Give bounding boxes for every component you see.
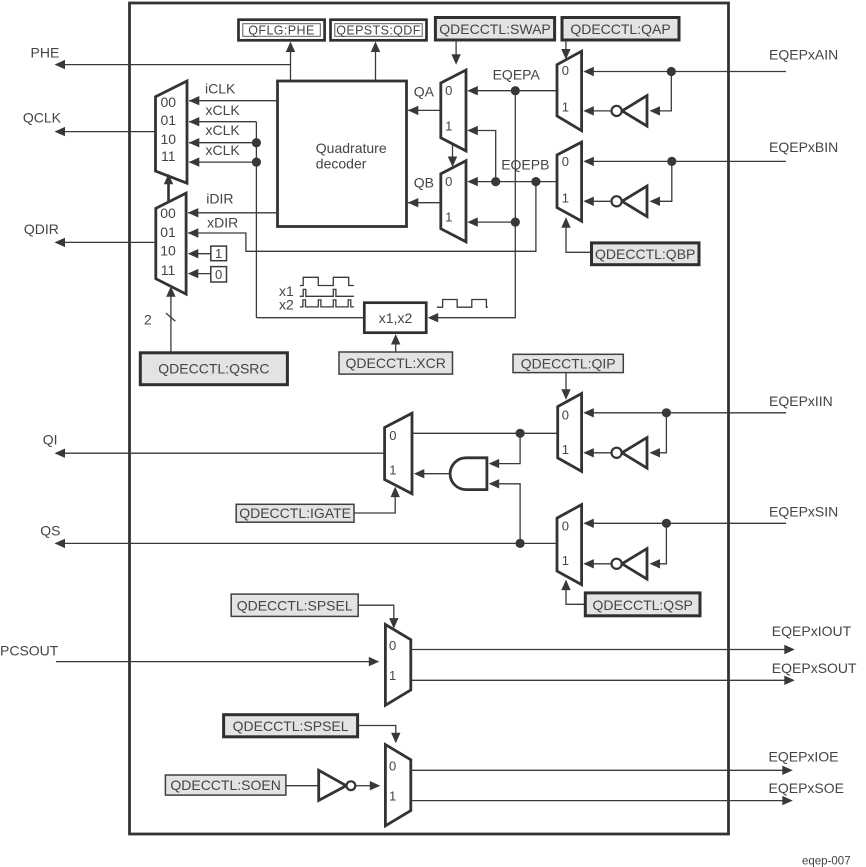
wire SWAP select QA to QB — [448, 145, 457, 167]
wire EQEPB — [467, 157, 557, 187]
wire AND input index — [489, 433, 520, 468]
wire QSRC select pass-through M2 to M1 — [164, 174, 173, 201]
junction EQEPxSIN — [662, 519, 671, 528]
svg-text:QDECCTL:QSRC: QDECCTL:QSRC — [158, 361, 269, 377]
svg-text:decoder: decoder — [316, 155, 367, 171]
wire PHE out — [55, 60, 291, 69]
inverter B — [612, 186, 648, 217]
svg-text:1: 1 — [562, 553, 569, 568]
wire EQEPxIOUT — [411, 645, 795, 654]
constant 0 box — [188, 267, 227, 283]
wire inverter S input — [650, 523, 667, 568]
svg-text:QA: QA — [414, 84, 435, 100]
svg-text:01: 01 — [161, 112, 177, 128]
register QDECCTL:XCR — [339, 352, 453, 374]
svg-text:1: 1 — [445, 210, 452, 225]
svg-text:QDECCTL:SWAP: QDECCTL:SWAP — [439, 21, 551, 37]
svg-text:x1,x2: x1,x2 — [379, 310, 413, 326]
svg-text:PHE: PHE — [31, 45, 60, 61]
junction EQEPB at QA branch — [491, 177, 500, 186]
svg-text:1: 1 — [445, 119, 452, 134]
wire IGATE select — [354, 487, 400, 513]
svg-text:0: 0 — [389, 759, 396, 774]
wire xCLK 1 — [189, 102, 257, 127]
svg-text:0: 0 — [562, 519, 569, 534]
svg-text:1: 1 — [389, 789, 396, 804]
wire AND output to QI mux input 1 — [414, 469, 450, 478]
svg-text:xCLK: xCLK — [206, 102, 241, 118]
waveform x1 pulses — [300, 289, 354, 296]
demux SOE — [385, 745, 410, 826]
wire QSRC select to M2 — [166, 286, 175, 353]
wire EQEPA into x1,x2 block — [428, 91, 516, 323]
svg-text:EQEPA: EQEPA — [493, 67, 541, 83]
svg-text:EQEPxSOUT: EQEPxSOUT — [772, 660, 857, 676]
junction EQEPxIIN — [662, 408, 671, 417]
svg-text:1: 1 — [389, 462, 396, 477]
wire EQEPA to QB mux input 1 — [467, 217, 515, 226]
svg-text:QDECCTL:QBP: QDECCTL:QBP — [595, 246, 695, 262]
svg-text:QDECCTL:SPSEL: QDECCTL:SPSEL — [233, 718, 349, 734]
register QFLG:PHE — [239, 20, 325, 41]
svg-text:2: 2 — [144, 312, 152, 328]
junction index — [516, 429, 525, 438]
wire SWAP select to QA mux — [451, 40, 460, 65]
junction EQEPxBIN — [667, 157, 676, 166]
wire xDIR — [188, 182, 536, 252]
svg-text:0: 0 — [562, 63, 569, 78]
svg-text:0: 0 — [562, 154, 569, 169]
svg-text:0: 0 — [389, 428, 396, 443]
outer boundary box — [130, 3, 729, 834]
svg-text:QDECCTL:SPSEL: QDECCTL:SPSEL — [237, 598, 353, 614]
wire PCSOUT in — [56, 657, 379, 666]
wire QDIR out — [55, 238, 156, 247]
wire QIP select — [561, 373, 570, 400]
inverter S — [612, 549, 648, 580]
svg-text:QDECCTL:IGATE: QDECCTL:IGATE — [239, 505, 351, 521]
waveform quadrature clock — [300, 277, 354, 285]
wire SPSEL select to PCSOUT demux — [358, 605, 398, 628]
svg-text:0: 0 — [215, 267, 222, 282]
svg-text:QB: QB — [414, 175, 434, 191]
wire inverter A output to mux input 1 — [583, 106, 611, 115]
wire EQEPxSOUT — [411, 676, 795, 685]
svg-text:EQEPxAIN: EQEPxAIN — [769, 47, 838, 63]
svg-text:QDIR: QDIR — [24, 221, 59, 237]
svg-text:0: 0 — [562, 408, 569, 423]
inverter I — [612, 438, 648, 469]
demux PCSOUT — [385, 625, 410, 706]
wire QS out — [55, 539, 558, 548]
svg-text:1: 1 — [562, 191, 569, 206]
svg-text:0: 0 — [445, 174, 452, 189]
register QDECCTL:SOEN — [165, 775, 286, 795]
junction xCLK b — [252, 158, 261, 167]
svg-text:QDECCTL:XCR: QDECCTL:XCR — [346, 355, 446, 371]
svg-text:00: 00 — [161, 94, 177, 110]
block x1,x2 — [364, 303, 426, 333]
AND gate U1 — [450, 458, 487, 490]
svg-text:00: 00 — [160, 205, 176, 221]
svg-text:10: 10 — [161, 131, 177, 147]
wire QBP select — [561, 217, 591, 252]
svg-text:0: 0 — [389, 638, 396, 653]
wire decoder to QEPSTS:QDF — [371, 42, 380, 82]
register QDECCTL:QSP — [585, 593, 700, 616]
svg-text:1: 1 — [562, 442, 569, 457]
svg-text:PCSOUT: PCSOUT — [0, 643, 59, 659]
mux input A (EQEPxAIN) — [557, 51, 582, 131]
wire inverter I input — [650, 413, 667, 458]
wire EQEPxIIN pin — [583, 408, 786, 417]
wire x1,x2 output to xCLK bus — [256, 317, 364, 319]
bus width slash — [166, 313, 175, 321]
svg-text:x2: x2 — [279, 296, 294, 312]
junction EQEPA at QB mux input 1 — [511, 218, 520, 227]
svg-text:QFLG:PHE: QFLG:PHE — [248, 23, 314, 37]
register QEPSTS:QDF — [331, 20, 427, 41]
inverter SOEN — [319, 770, 356, 800]
svg-text:EQEPxIIN: EQEPxIIN — [769, 393, 833, 409]
mux QA — [441, 70, 466, 151]
wire xCLK 2 — [189, 122, 257, 147]
junction EQEPxAIN — [667, 67, 676, 76]
svg-text:iCLK: iCLK — [205, 81, 236, 97]
wire EQEPxAIN pin — [583, 67, 786, 76]
wire inverter A input — [650, 72, 672, 116]
constant 1 box — [188, 246, 227, 261]
svg-text:xDIR: xDIR — [207, 215, 238, 231]
junction EQEPB at xDIR branch — [531, 177, 540, 186]
waveform output pulses — [437, 300, 488, 308]
svg-text:Quadrature: Quadrature — [316, 140, 387, 156]
register QDECCTL:QIP — [513, 354, 623, 372]
wire QSP select — [561, 580, 585, 605]
wire xCLK bus vertical — [255, 122, 257, 318]
mux input S (EQEPxSIN) — [557, 505, 582, 585]
svg-text:QDECCTL:QIP: QDECCTL:QIP — [521, 355, 616, 371]
register QDECCTL:QBP — [592, 243, 700, 265]
svg-text:11: 11 — [161, 262, 176, 278]
svg-text:QS: QS — [40, 522, 60, 538]
wire EQEPA — [467, 67, 557, 96]
junction strobe on QS wire — [516, 539, 525, 548]
svg-text:QDECCTL:SOEN: QDECCTL:SOEN — [170, 777, 280, 793]
mux M1 (QCLK select) — [156, 81, 188, 183]
svg-text:01: 01 — [160, 224, 176, 240]
svg-text:1: 1 — [215, 246, 222, 261]
wire iCLK — [189, 81, 278, 106]
waveform x2 pulses — [300, 300, 354, 307]
mux input B (EQEPxBIN) — [557, 142, 582, 221]
wire index to QI mux input 0 — [412, 432, 558, 434]
svg-text:EQEPxIOUT: EQEPxIOUT — [772, 623, 852, 639]
svg-text:iDIR: iDIR — [206, 191, 233, 207]
wire EQEPxSIN pin — [583, 519, 786, 528]
svg-text:EQEPB: EQEPB — [501, 157, 549, 173]
wire inverter I output to mux input 1 — [583, 448, 611, 457]
svg-text:QCLK: QCLK — [23, 110, 62, 126]
mux QI output select — [385, 413, 412, 494]
svg-text:eqep-007: eqep-007 — [802, 856, 851, 867]
wire inverter B output to mux input 1 — [583, 197, 611, 206]
wire XCR select — [391, 334, 400, 352]
svg-text:EQEPxBIN: EQEPxBIN — [769, 139, 838, 155]
register QDECCTL:SPSEL lower — [224, 715, 358, 737]
mux QB — [441, 161, 466, 242]
svg-text:EQEPxIOE: EQEPxIOE — [769, 748, 839, 764]
wire EQEPxIOE — [411, 766, 793, 775]
svg-text:1: 1 — [562, 100, 569, 115]
junction xCLK a — [252, 138, 261, 147]
wire EQEPxBIN pin — [583, 157, 786, 166]
register QDECCTL:SWAP — [435, 18, 554, 41]
wire QCLK out — [55, 127, 156, 136]
mux M2 (QDIR select) — [156, 193, 186, 294]
wire EQEPxSOE — [411, 796, 793, 805]
mux input I (EQEPxIIN) — [558, 394, 582, 472]
wire QA to decoder — [408, 106, 441, 115]
wire QB to decoder — [408, 198, 441, 207]
svg-text:0: 0 — [445, 83, 452, 98]
wire SPSEL select to SOE demux — [358, 726, 401, 744]
register QDECCTL:SPSEL upper — [231, 594, 358, 616]
wire inverter S output to mux input 1 — [583, 559, 611, 568]
Quadrature decoder block — [278, 81, 407, 227]
wire decoder to QFLG:PHE — [286, 42, 295, 82]
svg-text:QI: QI — [43, 431, 58, 447]
wire SOEN to inverter — [286, 785, 319, 787]
register QDECCTL:QAP — [562, 18, 679, 41]
junction EQEPA at mux A input — [511, 86, 520, 95]
register QDECCTL:QSRC — [140, 353, 287, 385]
svg-text:10: 10 — [160, 242, 176, 258]
inverter A — [612, 96, 648, 127]
svg-text:QEPSTS:QDF: QEPSTS:QDF — [336, 23, 421, 37]
svg-text:EQEPxSOE: EQEPxSOE — [769, 780, 844, 796]
wire QI out — [55, 449, 385, 458]
wire EQEPB to QA mux input 1 — [467, 126, 495, 182]
wire inverter B input — [650, 161, 672, 206]
wire iDIR — [188, 191, 278, 218]
wire QAP select — [561, 40, 570, 60]
register QDECCTL:IGATE — [236, 504, 354, 522]
svg-text:11: 11 — [161, 148, 176, 164]
svg-text:xCLK: xCLK — [206, 122, 241, 138]
wire xCLK 3 — [189, 142, 257, 167]
svg-text:QDECCTL:QSP: QDECCTL:QSP — [593, 597, 693, 613]
svg-text:QDECCTL:QAP: QDECCTL:QAP — [570, 21, 670, 37]
wire inverter to SOE demux — [356, 781, 381, 790]
svg-text:1: 1 — [389, 668, 396, 683]
svg-text:xCLK: xCLK — [206, 142, 241, 158]
wire AND input strobe — [489, 479, 520, 543]
svg-text:EQEPxSIN: EQEPxSIN — [769, 503, 838, 519]
